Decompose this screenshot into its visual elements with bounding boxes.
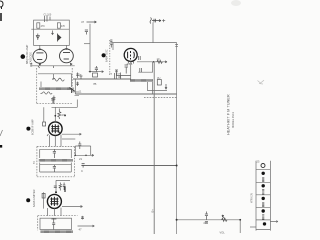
- svg-text:T2: T2: [33, 161, 36, 164]
- svg-text:HEATHKIT F M TUNER: HEATHKIT F M TUNER: [227, 94, 231, 135]
- wire: hline with cap above bus (x88-104): [89, 71, 104, 73]
- heater ladder frame: [256, 161, 270, 231]
- capacitor C18 on rail: [82, 164, 85, 168]
- svg-text:47: 47: [81, 20, 85, 24]
- oscillator box dashed bottom: [144, 97, 177, 99]
- svg-text:25: 25: [257, 160, 260, 164]
- capacitor C7 marks: [115, 73, 121, 79]
- diode D2 (dark): [57, 34, 59, 42]
- resistor R11 marks below V3: [125, 65, 129, 74]
- capacitor C5 at antenna 2: [154, 19, 155, 23]
- svg-text:47K: 47K: [41, 25, 46, 28]
- svg-text:HTR 6.3V: HTR 6.3V: [252, 192, 254, 203]
- potentiometer arrow on bottom rail: [222, 215, 228, 222]
- resistor R20 marks above V5: [54, 186, 57, 188]
- wire: V3 cathode drop: [130, 61, 132, 78]
- capacitor C6: [95, 66, 98, 72]
- svg-text:11: 11: [79, 90, 82, 94]
- antenna input 2 arrow: [152, 20, 161, 22]
- junction dot on downlead: [89, 71, 91, 73]
- cathode arrow V1: [39, 64, 42, 66]
- wire: AGC arrow from V4: [62, 133, 81, 135]
- wire: arrow right from ladder: [270, 221, 278, 223]
- wire: stub to T1: [84, 43, 90, 45]
- transformer T1 dashed shield box: [37, 68, 72, 104]
- heater coil 2: [262, 189, 264, 194]
- antenna input 1 arrow: [87, 21, 97, 23]
- coil T2 winding (dark hatched band): [39, 159, 73, 162]
- wire: stub to heater ladder: [250, 226, 256, 228]
- tube V2 6BQ7A: [60, 49, 74, 63]
- heater dot 2: [262, 184, 265, 187]
- svg-text:4B: 4B: [118, 75, 121, 79]
- resistor R14 right of V4: [58, 109, 61, 120]
- wire: mid rail of discriminator box: [31, 28, 69, 30]
- wire: arrow tip row1: [165, 61, 167, 63]
- osc padder loop: [117, 70, 131, 75]
- coil L2 winding (dark hatched band): [40, 87, 72, 90]
- svg-text:6CB6 IF AMP: 6CB6 IF AMP: [31, 119, 35, 135]
- wire: bottom rail from right vertical: [177, 219, 241, 221]
- capacitor C23: [81, 217, 84, 219]
- pilot lamp circle: [261, 164, 265, 168]
- resistor R18 + capacitor C19 pair: [59, 183, 61, 191]
- svg-text:MODEL FM-3: MODEL FM-3: [231, 112, 235, 128]
- wire: stem V2 grid: [65, 45, 67, 49]
- wire: oscillator box left stub: [112, 43, 114, 50]
- wire: T2 lower rails: [40, 163, 72, 173]
- resistor R12 box: [157, 80, 161, 86]
- svg-text:CASCODE: CASCODE: [30, 52, 33, 64]
- trimmer marks right of T1: [76, 73, 79, 87]
- discriminator box outline (top left): [34, 20, 70, 45]
- resistor R2: [57, 23, 60, 28]
- bypass loop circuit (right of T2): [75, 146, 93, 155]
- resistor R8 at box corner: [110, 40, 112, 48]
- wire: bracket joining rails: [74, 79, 76, 94]
- wire: ground bus above T1: [31, 65, 75, 67]
- junction dot at V5 top: [55, 191, 57, 193]
- wire: AVC rail A: [73, 78, 131, 80]
- wire: arrow down: [165, 84, 167, 89]
- coil L3 (squiggle with arrow): [41, 92, 53, 94]
- capacitor C12 above V4: [52, 96, 55, 104]
- capacitor C9: [139, 56, 141, 60]
- wire: T1 lower exit rail: [52, 100, 78, 108]
- wire: V5 plate branch: [56, 180, 70, 192]
- IF transformer T-osc hatched band: [130, 79, 153, 82]
- faint print smudge: [231, 0, 241, 6]
- left margin black square: [0, 145, 2, 148]
- wire: stem V1 grid: [39, 45, 41, 49]
- wire: band verticals: [148, 82, 168, 94]
- svg-text:.005: .005: [203, 222, 208, 225]
- wire: T1 inner top rail: [38, 73, 72, 75]
- heater coil 4: [262, 215, 264, 220]
- cathode arrow V2: [70, 63, 73, 66]
- wire: drop at rail end: [239, 220, 241, 233]
- trimmer box at V5: [42, 193, 45, 198]
- wire: right vertical rail (x176.6): [176, 43, 178, 234]
- junction dot at rail end: [176, 165, 178, 167]
- svg-text:4 8 6: 4 8 6: [127, 62, 133, 66]
- resistor R10: [157, 60, 163, 63]
- svg-text:6AB4 OSC: 6AB4 OSC: [104, 49, 108, 62]
- resistor R6 box above rail: [93, 73, 98, 77]
- diode D1: [36, 34, 40, 41]
- wire: antenna 2 downlead: [152, 22, 154, 42]
- svg-text:VOL: VOL: [220, 231, 226, 235]
- node mark plus: [162, 19, 165, 22]
- wire: plate row y61.8: [137, 61, 167, 63]
- heater coil 1: [262, 177, 264, 182]
- capacitor C16: [53, 165, 56, 172]
- svg-text:21: 21: [79, 157, 83, 161]
- heater dot 1: [262, 172, 265, 175]
- junction dots: [75, 155, 77, 157]
- wire: grid stub down-left: [138, 62, 152, 72]
- wire: arrow out of loop: [92, 154, 94, 156]
- junction tick on bus: [38, 66, 53, 68]
- resistor R5 tick: [80, 76, 83, 79]
- capacitor C1 label block: [45, 16, 51, 23]
- resistor R1: [37, 23, 40, 28]
- wire: short stub: [62, 138, 75, 140]
- wire: arrow tip: [102, 71, 104, 73]
- transformer T2 dashed shield box: [37, 147, 75, 177]
- ground marks left: [30, 64, 32, 66]
- capacitor C15: [53, 149, 56, 158]
- node dot (black) for V3: [102, 53, 106, 57]
- junction dot: [153, 61, 155, 63]
- capacitor C26 below rail: [205, 222, 208, 224]
- node dot (black) for V5: [26, 198, 30, 202]
- tube V4 IF amp (dark, grid pattern): [49, 122, 63, 136]
- capacitor C4 in T1: [51, 99, 54, 104]
- wire: arrow from V5: [62, 206, 83, 208]
- svg-text:6BQ7A RF AMP: 6BQ7A RF AMP: [25, 45, 29, 64]
- wire: arrow into junction: [52, 31, 54, 35]
- wire: long IF rail to right vertical: [81, 165, 176, 167]
- svg-text:6AU6 LIMITER: 6AU6 LIMITER: [32, 189, 36, 207]
- pin stubs V5: [48, 208, 62, 216]
- heater dot 3: [262, 197, 265, 200]
- tuning gang dashed line: [109, 40, 111, 75]
- antenna input 2 terminal: [150, 18, 151, 24]
- heater dot 5: [263, 222, 266, 225]
- dark mark right of R20: [64, 187, 66, 193]
- junction dot near T1 exit: [64, 115, 66, 117]
- tube V5 limiter (dark, grid pattern): [47, 194, 61, 208]
- wire: V4 grid feed verticals: [44, 107, 56, 122]
- wire: V5 left feed: [43, 192, 45, 208]
- coil T3 winding (dark hatched band): [41, 230, 73, 233]
- svg-text:47: 47: [79, 228, 83, 232]
- svg-text:47K: 47K: [61, 25, 66, 28]
- capacitor C17: [78, 142, 81, 150]
- heater dot 4: [262, 209, 265, 212]
- node label dot (black) for V1/V2: [21, 54, 26, 59]
- svg-text:3U: 3U: [157, 76, 160, 80]
- left margin slash mark: [0, 130, 3, 136]
- tick box on rail B: [75, 92, 80, 95]
- svg-text:B+: B+: [151, 209, 155, 213]
- node dot (black) for V4: [26, 127, 30, 131]
- capacitor C22 in T3: [52, 218, 55, 229]
- pin stubs V4: [50, 135, 62, 147]
- ladder rungs: [256, 170, 270, 230]
- wire: arrow out of loop2: [93, 225, 95, 227]
- svg-text:C: C: [81, 169, 83, 173]
- transformer T3 box (ratio detector): [38, 216, 78, 231]
- wire: antenna 1 downlead: [89, 24, 91, 72]
- coil L1 (squiggle): [52, 78, 64, 81]
- trimmer box at V4 grid: [43, 122, 46, 126]
- heater coil 3: [262, 202, 264, 207]
- svg-text:7B: 7B: [93, 82, 97, 86]
- capacitor C10: [140, 68, 142, 72]
- oscillator shield box (top): [112, 42, 177, 44]
- wire: AVC rail B: [75, 93, 176, 95]
- junction dot on V4 feed: [54, 115, 56, 117]
- svg-text:C1 100: C1 100: [44, 14, 52, 17]
- capacitor C25 on bottom rail: [205, 212, 208, 220]
- tube V3 oscillator (dark): [124, 48, 137, 61]
- tick marks on rail top: [175, 45, 178, 47]
- left margin cut-off component glyph: [0, 1, 3, 21]
- svg-text:10: 10: [157, 57, 160, 61]
- wire: B+ vertical rail (x154.2): [153, 62, 155, 234]
- wire: T1 internal verticals: [41, 74, 72, 87]
- marks in T3 top: [51, 218, 56, 220]
- antenna input 1 capacitor: [85, 30, 88, 35]
- bypass loop circuit 2 (right of T3): [78, 216, 95, 226]
- wire: T2 top rail: [40, 149, 72, 158]
- faint pencil mark: [258, 80, 265, 84]
- tube V1 6BQ7A: [33, 49, 47, 63]
- wire: exit cluster at T1 lower-right: [69, 88, 75, 94]
